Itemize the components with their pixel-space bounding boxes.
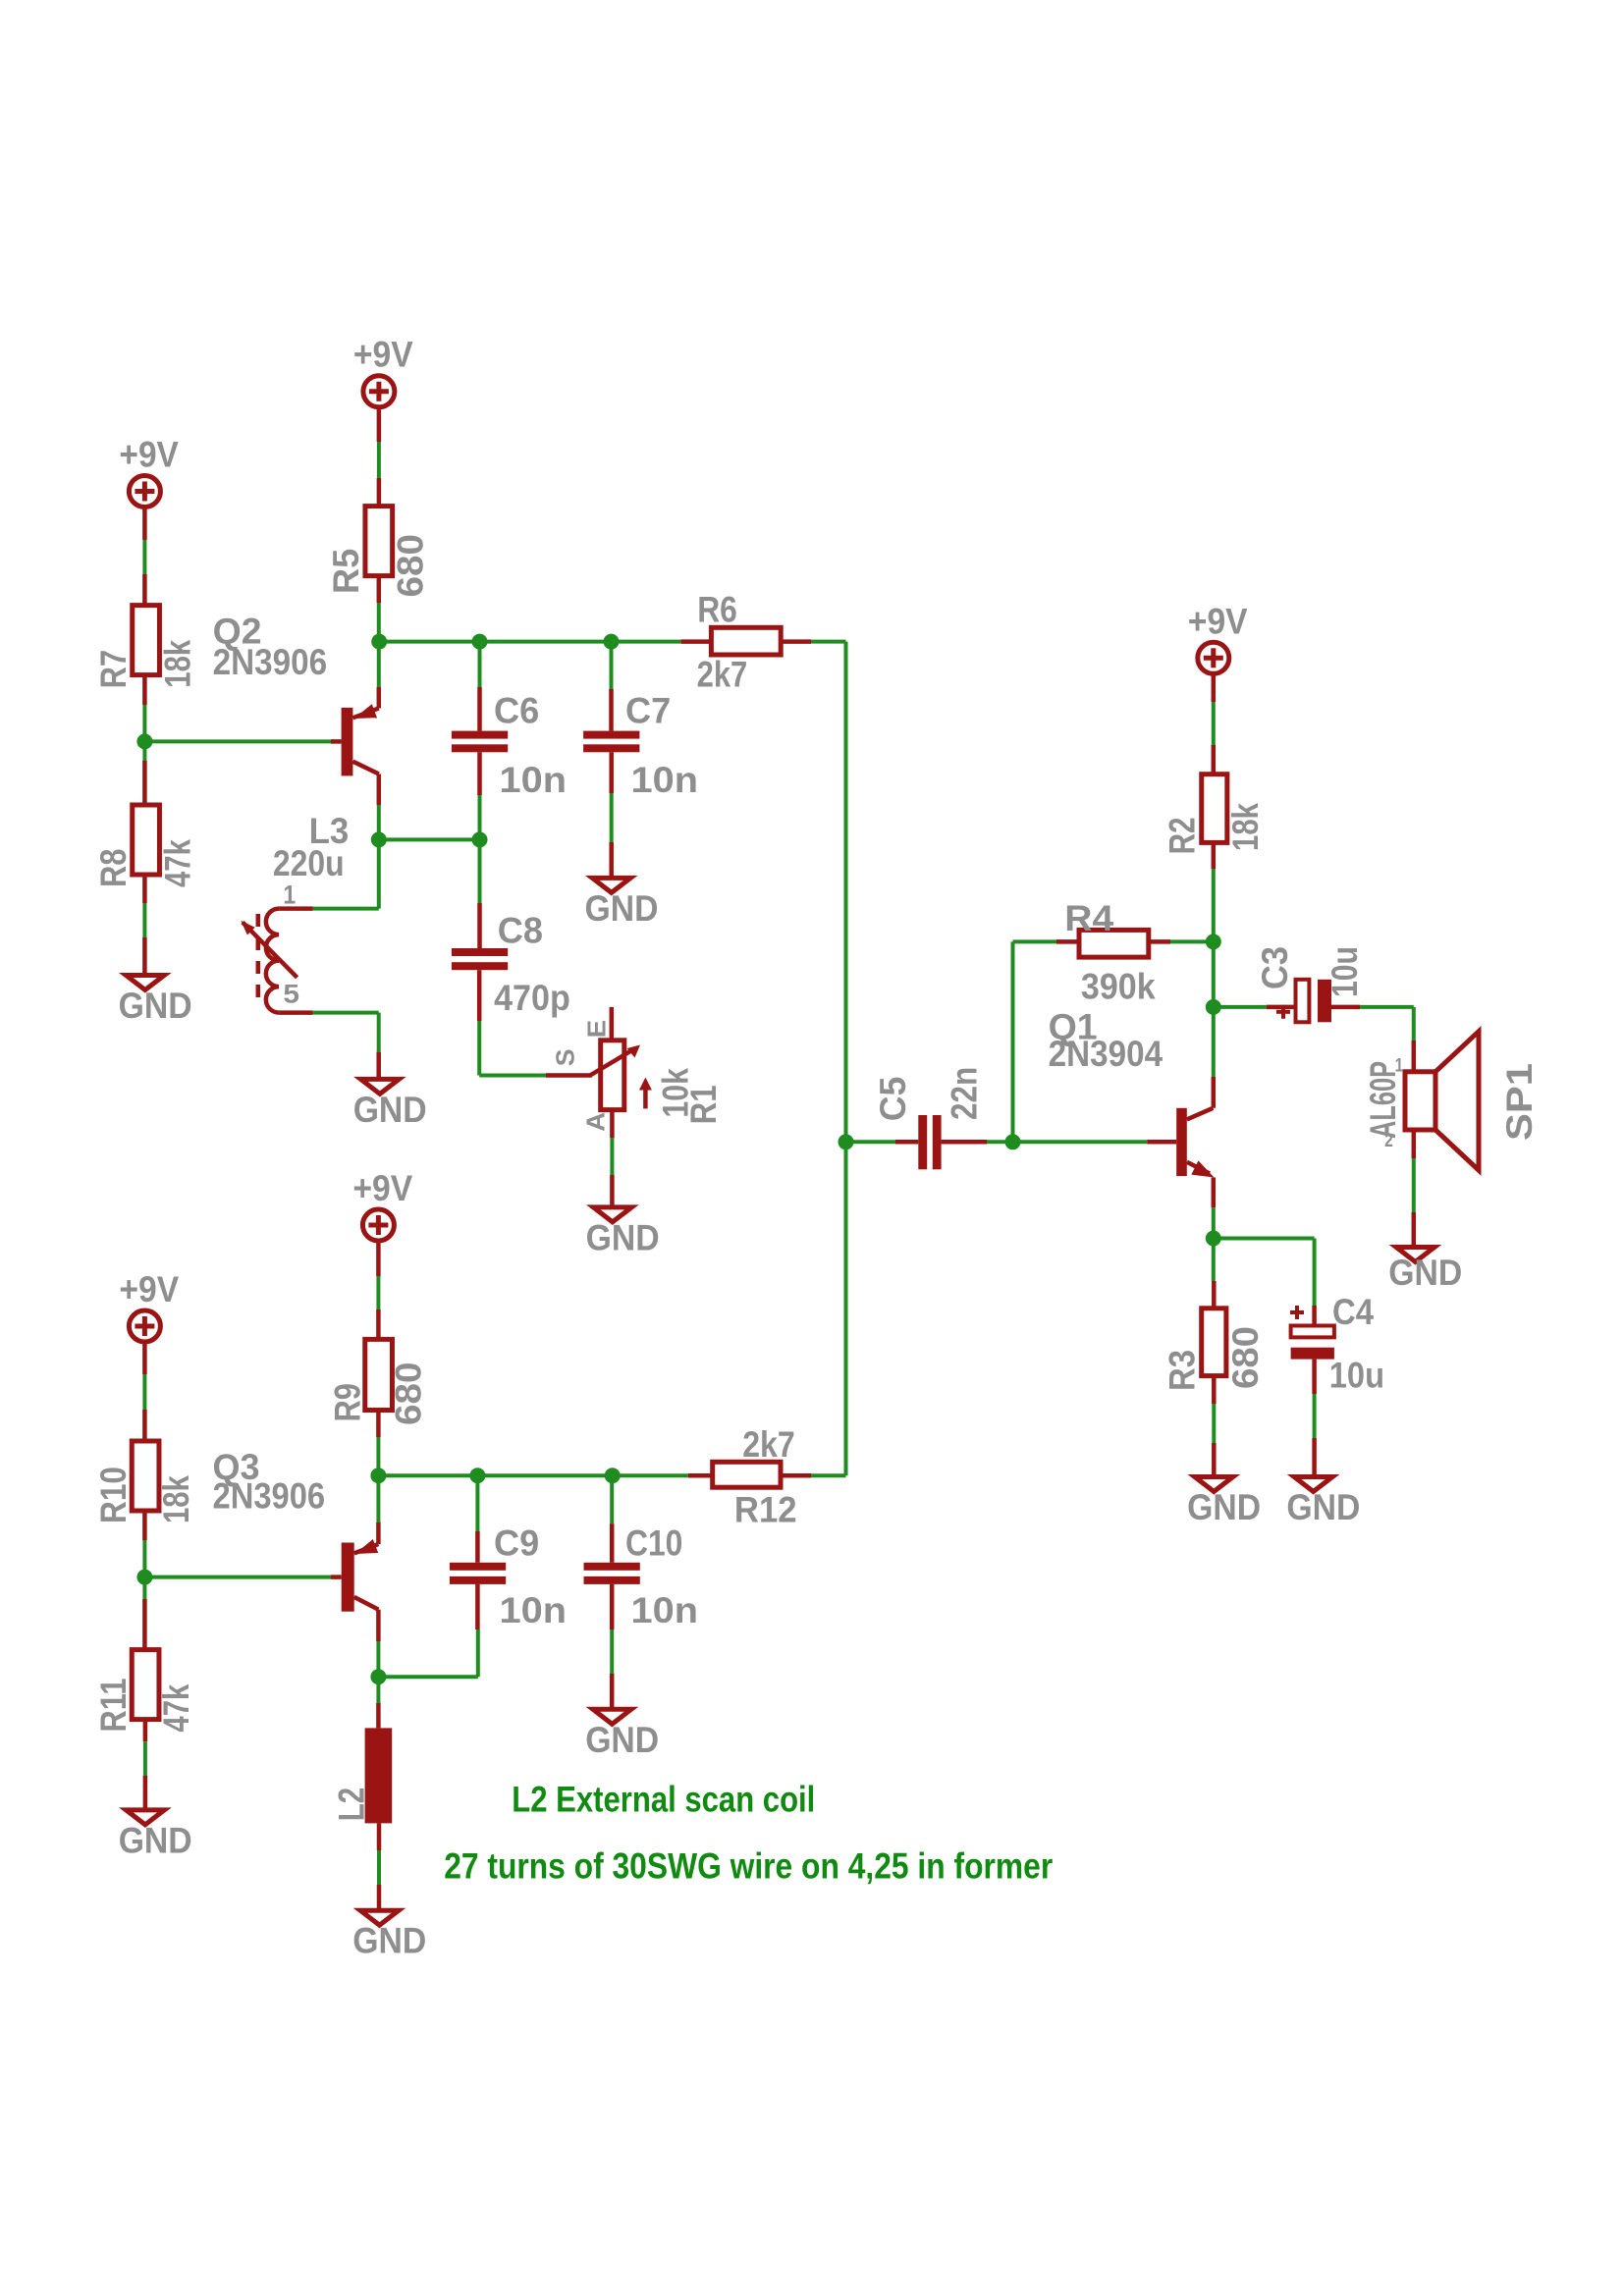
svg-text:2N3906: 2N3906 bbox=[213, 642, 328, 682]
svg-text:2k7: 2k7 bbox=[742, 1424, 795, 1465]
svg-text:R11: R11 bbox=[93, 1679, 134, 1733]
svg-text:S: S bbox=[551, 1049, 580, 1067]
svg-text:680: 680 bbox=[1225, 1326, 1266, 1389]
svg-text:+9V: +9V bbox=[353, 335, 413, 375]
svg-text:18k: 18k bbox=[1225, 803, 1266, 851]
svg-text:R3: R3 bbox=[1163, 1350, 1203, 1391]
svg-text:GND: GND bbox=[119, 1820, 192, 1860]
svg-text:+9V: +9V bbox=[352, 1168, 412, 1208]
svg-text:47k: 47k bbox=[158, 839, 198, 887]
svg-text:18k: 18k bbox=[156, 1475, 196, 1523]
svg-text:220u: 220u bbox=[273, 843, 345, 883]
svg-text:2N3906: 2N3906 bbox=[213, 1475, 326, 1516]
svg-text:GND: GND bbox=[585, 888, 659, 929]
svg-text:GND: GND bbox=[352, 1921, 426, 1961]
svg-text:470p: 470p bbox=[494, 978, 570, 1018]
svg-text:5: 5 bbox=[283, 980, 299, 1009]
svg-text:GND: GND bbox=[586, 1217, 660, 1257]
svg-text:+9V: +9V bbox=[1188, 601, 1248, 641]
svg-text:R6: R6 bbox=[697, 590, 737, 630]
svg-text:390k: 390k bbox=[1081, 967, 1156, 1007]
svg-text:GND: GND bbox=[585, 1720, 659, 1760]
svg-text:10n: 10n bbox=[500, 760, 568, 800]
svg-text:R12: R12 bbox=[734, 1489, 797, 1529]
svg-text:R8: R8 bbox=[93, 849, 134, 888]
svg-text:10n: 10n bbox=[631, 760, 699, 800]
svg-text:10n: 10n bbox=[500, 1590, 568, 1630]
svg-text:R2: R2 bbox=[1163, 817, 1203, 854]
svg-text:1: 1 bbox=[1395, 1056, 1404, 1077]
svg-text:GND: GND bbox=[1388, 1253, 1462, 1293]
svg-text:E: E bbox=[582, 1020, 612, 1039]
svg-text:R5: R5 bbox=[326, 549, 366, 594]
svg-text:R9: R9 bbox=[328, 1383, 368, 1422]
svg-text:47k: 47k bbox=[156, 1683, 196, 1732]
svg-text:GND: GND bbox=[1187, 1487, 1261, 1527]
svg-text:SP1: SP1 bbox=[1499, 1063, 1540, 1141]
svg-text:10n: 10n bbox=[631, 1590, 699, 1630]
svg-text:C7: C7 bbox=[625, 691, 671, 731]
svg-text:A: A bbox=[581, 1112, 611, 1132]
svg-text:C8: C8 bbox=[498, 910, 543, 950]
svg-text:2k7: 2k7 bbox=[697, 655, 748, 695]
svg-text:C5: C5 bbox=[873, 1077, 913, 1122]
svg-text:R7: R7 bbox=[93, 650, 134, 689]
svg-text:R1: R1 bbox=[683, 1085, 724, 1124]
svg-text:C10: C10 bbox=[625, 1522, 682, 1563]
svg-text:C9: C9 bbox=[494, 1522, 539, 1563]
svg-text:10u: 10u bbox=[1329, 1356, 1384, 1396]
svg-text:2: 2 bbox=[1384, 1131, 1393, 1151]
svg-text:+9V: +9V bbox=[119, 435, 179, 475]
svg-text:R10: R10 bbox=[93, 1467, 134, 1523]
svg-text:680: 680 bbox=[389, 1362, 429, 1426]
svg-text:GND: GND bbox=[353, 1090, 427, 1130]
svg-text:L2: L2 bbox=[331, 1788, 371, 1821]
svg-text:2N3904: 2N3904 bbox=[1049, 1034, 1163, 1074]
svg-text:C3: C3 bbox=[1255, 946, 1295, 989]
svg-text:C6: C6 bbox=[494, 691, 539, 731]
svg-text:22n: 22n bbox=[945, 1067, 985, 1120]
svg-text:GND: GND bbox=[119, 986, 192, 1026]
svg-text:10u: 10u bbox=[1325, 946, 1365, 997]
svg-text:L2 External scan coil: L2 External scan coil bbox=[512, 1779, 815, 1820]
svg-text:GND: GND bbox=[1286, 1487, 1360, 1527]
svg-text:27 turns of 30SWG wire on 4,25: 27 turns of 30SWG wire on 4,25 in former bbox=[444, 1845, 1053, 1887]
svg-text:18k: 18k bbox=[158, 639, 198, 687]
svg-text:R4: R4 bbox=[1064, 898, 1113, 938]
svg-text:+9V: +9V bbox=[119, 1269, 179, 1309]
svg-text:680: 680 bbox=[391, 534, 431, 598]
svg-text:C4: C4 bbox=[1332, 1292, 1374, 1332]
svg-text:1: 1 bbox=[283, 881, 296, 910]
